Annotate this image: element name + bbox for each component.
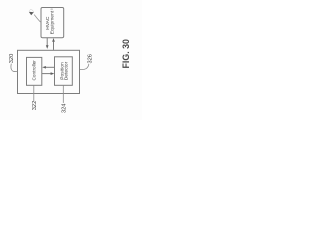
- label HVAC Equipment: [45, 10, 56, 34]
- position detector box 324: [55, 57, 73, 86]
- leader 326: [80, 64, 89, 70]
- svg-text:Detector: Detector: [64, 61, 70, 80]
- svg-text:FIG. 30: FIG. 30: [121, 39, 131, 68]
- leader 324: [62, 85, 64, 103]
- wire arrow HVAC to actuator (down): [46, 38, 49, 49]
- svg-text:Equipment: Equipment: [50, 10, 56, 34]
- svg-text:320: 320: [9, 54, 15, 64]
- wire arrow actuator to HVAC (up): [52, 38, 55, 50]
- leader 322: [33, 85, 35, 101]
- leader 320: [11, 64, 18, 72]
- svg-text:322: 322: [32, 101, 38, 111]
- label Position Detector: [60, 61, 70, 80]
- background: [0, 0, 142, 120]
- controller box 322: [27, 57, 42, 85]
- svg-text:Controller: Controller: [32, 60, 37, 81]
- arrowhead of HVAC leader: [29, 12, 34, 16]
- speck on HVAC box top: [50, 8, 53, 10]
- HVAC equipment box: [41, 8, 64, 38]
- svg-text:326: 326: [88, 54, 94, 64]
- wire arrow detector to controller (left): [42, 66, 54, 69]
- actuator outer box 320: [18, 50, 80, 93]
- leader hook to HVAC equipment: [34, 15, 41, 23]
- wire arrow controller to detector (right): [42, 72, 55, 75]
- svg-text:324: 324: [62, 104, 68, 114]
